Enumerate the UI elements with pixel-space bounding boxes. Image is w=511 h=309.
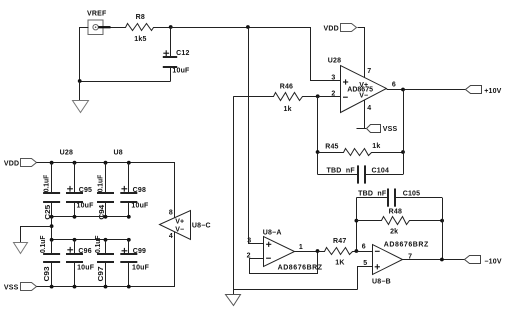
svg-text:1k5: 1k5 — [134, 36, 146, 43]
svg-text:R47: R47 — [333, 238, 346, 245]
node second rail junction col4 — [127, 238, 131, 242]
wire U8-A output — [294, 251, 318, 253]
op-amp U8-C power section triangle — [160, 211, 191, 240]
svg-text:V−: V− — [359, 93, 368, 100]
wire mid rail to second rail vertical — [51, 217, 53, 240]
svg-text:2k: 2k — [390, 229, 398, 236]
wire drop to U8-A pin3 — [249, 28, 264, 244]
svg-text:6: 6 — [392, 82, 396, 89]
port tag +10V — [466, 86, 482, 94]
svg-text:TBD: TBD — [327, 168, 342, 175]
svg-text:0.1uF: 0.1uF — [40, 235, 47, 253]
wire C105 right down to U8-B output — [442, 198, 444, 260]
svg-text:10uF: 10uF — [77, 202, 95, 209]
wire U8-A pin2 feedback loop — [250, 252, 318, 274]
wire VDD tag to U28 pin7 — [358, 28, 365, 78]
node R45 left junction — [316, 150, 320, 154]
wire VREF to ground drop — [80, 28, 89, 82]
node R47/U8-B pin6 junction — [355, 249, 359, 253]
polarity + of C12 — [163, 52, 169, 54]
svg-text:VSS: VSS — [383, 126, 398, 133]
svg-text:nF: nF — [346, 168, 355, 175]
U8-A noninverting marker + — [266, 243, 271, 245]
svg-text:10uF: 10uF — [172, 68, 190, 75]
resistor R48 — [357, 217, 443, 225]
svg-text:U8: U8 — [114, 150, 123, 157]
wire R46 left to ground rail (vertical) — [233, 96, 235, 290]
svg-text:V+: V+ — [359, 82, 368, 89]
wire VDD rail — [37, 163, 175, 218]
wire C12 to ground node — [80, 81, 171, 83]
node VDD rail junction col1 — [50, 161, 54, 165]
svg-text:1K: 1K — [335, 259, 344, 266]
svg-text:U8−A: U8−A — [263, 229, 282, 236]
capacitor C25 0.1uF — [51, 163, 53, 193]
power tag VSS for U28 — [367, 125, 381, 133]
node second rail junction col3 — [104, 238, 108, 242]
U8-B noninverting marker + — [375, 266, 380, 268]
capacitor C99 10uF (polarized) — [128, 240, 130, 254]
wire output node down to R45/C104 — [403, 89, 405, 174]
svg-text:V+: V+ — [175, 218, 184, 225]
power tag VDD for U28 — [341, 24, 357, 32]
wire U28 pin4 to VSS tag — [364, 100, 366, 129]
resistor R45 — [318, 149, 404, 156]
svg-text:C93: C93 — [44, 266, 51, 281]
node second rail junction col2 — [73, 238, 77, 242]
wire ground tee to ground symbol — [21, 227, 52, 243]
wire U8-B output to -10V tag — [403, 259, 465, 261]
connector VREF J? (coax jack) — [88, 20, 103, 35]
svg-text:10uF: 10uF — [132, 265, 150, 272]
svg-text:C99: C99 — [133, 248, 146, 255]
wire node to ground symbol — [79, 81, 81, 100]
svg-text:C12: C12 — [176, 50, 189, 57]
node R48 right junction — [440, 219, 444, 223]
node mid rail junction col4 — [127, 215, 131, 219]
resistor R47 — [318, 248, 357, 255]
svg-text:VSS: VSS — [4, 284, 19, 291]
capacitor C104 (TBD nF) — [318, 174, 358, 176]
svg-text:10uF: 10uF — [77, 265, 95, 272]
svg-text:TBD: TBD — [358, 191, 373, 198]
node R45 right junction — [401, 150, 405, 154]
svg-text:1: 1 — [299, 244, 303, 251]
wire ground rail bottom — [233, 289, 358, 291]
ground symbol near VREF — [73, 101, 89, 113]
U28 noninverting input marker + — [343, 81, 348, 83]
ground symbol bottom center — [226, 295, 241, 306]
node VSS rail junction col3 — [104, 285, 108, 289]
capacitor C96 10uF (polarized) — [74, 240, 76, 254]
svg-text:7: 7 — [367, 68, 371, 75]
node U28 output junction — [401, 88, 405, 92]
wire C105 left down to U8-B pin6 — [356, 198, 358, 251]
svg-text:VDD: VDD — [4, 161, 19, 168]
svg-text:1k: 1k — [284, 106, 292, 113]
svg-text:4: 4 — [367, 105, 371, 112]
svg-text:5: 5 — [363, 260, 367, 267]
node B junction top rail to U8-A drop — [246, 25, 250, 29]
op-amp U8-A AD8676BRZ triangle — [264, 237, 295, 267]
wire ground stem bottom — [233, 290, 235, 295]
svg-text:U28: U28 — [328, 58, 341, 65]
svg-text:R8: R8 — [136, 14, 145, 21]
svg-text:0.1uF: 0.1uF — [95, 235, 102, 253]
svg-text:3: 3 — [247, 237, 251, 244]
svg-text:6: 6 — [362, 243, 366, 250]
svg-text:−10V: −10V — [484, 258, 501, 265]
node R48 left junction — [355, 219, 359, 223]
svg-text:U8−C: U8−C — [192, 222, 211, 229]
svg-text:AD8676BRZ: AD8676BRZ — [278, 264, 323, 271]
capacitor C98 10uF (polarized) — [128, 163, 130, 193]
svg-text:VDD: VDD — [324, 25, 339, 32]
svg-text:0.1uF: 0.1uF — [44, 174, 51, 192]
wire mid rail — [52, 216, 129, 218]
capacitor C97 0.1uF — [105, 240, 107, 254]
node second rail junction col1 — [50, 238, 54, 242]
svg-text:0.1uF: 0.1uF — [98, 174, 105, 192]
svg-text:4: 4 — [169, 233, 173, 240]
node VDD rail junction col4 — [127, 161, 131, 165]
polarity + of C96 — [67, 249, 73, 251]
wire U8-B pin5 to ground rail — [358, 267, 373, 290]
node VSS rail junction col1 — [50, 285, 54, 289]
capacitor C94 0.1uF — [105, 163, 107, 193]
U8-A inverting marker - — [266, 257, 271, 259]
node mid rail junction col1 — [50, 215, 54, 219]
svg-text:C95: C95 — [79, 187, 92, 194]
U8-B inverting marker - — [375, 250, 380, 252]
svg-text:C96: C96 — [78, 248, 91, 255]
svg-text:R46: R46 — [280, 83, 293, 90]
node mid rail junction col3 — [104, 215, 108, 219]
resistor R46 — [234, 93, 318, 101]
capacitor C105 (TBD nF) — [356, 197, 388, 199]
capacitor C93 0.1uF — [51, 240, 53, 254]
node A junction R8/C12 — [169, 25, 173, 29]
node VDD rail junction col3 — [104, 161, 108, 165]
port tag -10V — [465, 256, 481, 264]
wire VSS rail — [37, 232, 175, 287]
svg-text:C98: C98 — [133, 187, 146, 194]
svg-text:R48: R48 — [389, 208, 402, 215]
op-amp U8-B AD8676BRZ triangle — [373, 245, 403, 275]
svg-text:V−: V− — [175, 227, 184, 234]
svg-text:3: 3 — [331, 74, 335, 81]
svg-text:10uF: 10uF — [131, 202, 149, 209]
svg-text:R45: R45 — [325, 143, 338, 150]
svg-text:U28: U28 — [60, 150, 73, 157]
op-amp U28 AD8675 triangle — [341, 66, 387, 113]
wire top rail to U28 pin3 — [171, 28, 341, 81]
ground symbol decoupling — [14, 243, 28, 254]
svg-text:C105: C105 — [403, 191, 421, 198]
capacitor C12 (polarized 10uF) — [170, 27, 172, 57]
node U8-A output junction — [316, 249, 320, 253]
polarity + of C99 — [122, 250, 128, 252]
svg-text:VREF: VREF — [87, 10, 107, 17]
polarity + of C98 — [121, 188, 127, 190]
wire second rail — [52, 239, 129, 241]
polarity + of C95 — [67, 188, 73, 190]
svg-text:C97: C97 — [98, 266, 105, 281]
U28 inverting input marker - — [343, 96, 348, 98]
wire pin2 node into U28 — [318, 96, 341, 98]
svg-text:AD8676BRZ: AD8676BRZ — [384, 242, 429, 249]
node mid rail junction col2 — [73, 215, 77, 219]
node ground tee junction — [50, 224, 54, 228]
wire into U8-B pin6 — [356, 251, 372, 253]
node C ground junction — [78, 79, 82, 83]
power tag VDD left — [21, 159, 37, 167]
node U8-B output junction — [440, 258, 444, 262]
svg-text:1k: 1k — [372, 143, 380, 150]
svg-text:+10V: +10V — [484, 88, 501, 95]
node VSS rail junction col4 — [127, 285, 131, 289]
node VSS rail junction col2 — [73, 285, 77, 289]
capacitor C95 10uF (polarized) — [74, 163, 76, 193]
svg-text:C104: C104 — [372, 168, 390, 175]
wire U28 output to +10V tag — [387, 89, 466, 91]
svg-text:U8−B: U8−B — [372, 279, 391, 286]
resistor R8 — [111, 24, 171, 31]
svg-text:nF: nF — [377, 191, 386, 198]
node VDD rail junction col2 — [73, 161, 77, 165]
wire pin2 node down to R45/C104 — [317, 96, 319, 174]
svg-text:8: 8 — [169, 210, 173, 217]
node R46/U28 pin2 junction — [316, 94, 320, 98]
power tag VSS left — [21, 283, 37, 291]
